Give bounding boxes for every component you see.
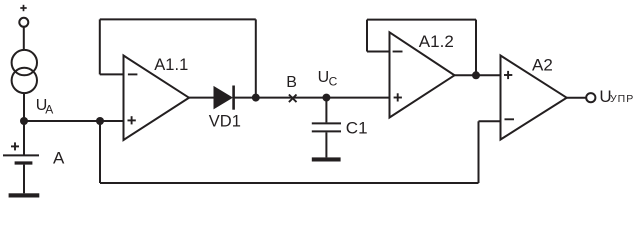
- ground (capacitor): [312, 157, 341, 161]
- wire UC to capacitor: [325, 98, 327, 123]
- node label UA: [36, 97, 53, 117]
- op-amp A1.1: [124, 56, 190, 141]
- wire A2 output: [567, 97, 587, 99]
- wire capacitor to ground: [325, 132, 327, 157]
- minus sign of A2 inverting input: [505, 118, 515, 120]
- wire battery to ground: [23, 165, 25, 194]
- node UA rail wire: [24, 120, 124, 122]
- minus sign of A1.2 inverting input: [393, 51, 403, 53]
- wire A1.2 inverting input: [367, 51, 390, 53]
- battery A negative plate: [15, 161, 33, 164]
- output label UUPR: [599, 87, 634, 106]
- wire terminal to current source: [23, 27, 25, 50]
- svg-text:B: B: [286, 74, 297, 91]
- plus polarity mark of battery: [11, 142, 19, 150]
- wire A1.2 feedback top run: [367, 19, 476, 21]
- op-amp A2: [501, 56, 567, 140]
- wire A1.1 feedback left riser: [99, 19, 101, 74]
- wire feedback riser right (to bottom run): [478, 121, 480, 183]
- svg-text:A: A: [45, 103, 53, 117]
- svg-text:VD1: VD1: [209, 113, 241, 131]
- junction A1.2 output / feedback: [472, 71, 480, 79]
- node label UC: [318, 69, 338, 89]
- svg-text:A1.1: A1.1: [154, 56, 188, 74]
- input terminal: [19, 18, 28, 27]
- svg-text:A1.2: A1.2: [419, 32, 454, 51]
- plus sign of A2 non-inverting input: [504, 71, 512, 79]
- diode VD1: [214, 86, 234, 110]
- junction node UC: [322, 94, 330, 102]
- svg-text:A: A: [53, 149, 65, 168]
- plus sign of A1.2 non-inverting input: [394, 93, 402, 101]
- svg-text:A2: A2: [532, 56, 553, 75]
- ground (battery): [9, 193, 40, 197]
- output terminal: [586, 93, 595, 102]
- svg-text:C: C: [329, 75, 338, 89]
- plus sign of A1.1 non-inverting input: [128, 116, 136, 124]
- junction at current source / battery: [20, 117, 28, 125]
- wire A1.1 inverting input: [100, 73, 124, 75]
- plus polarity mark of input terminal: [20, 5, 26, 11]
- wire A2 inverting input: [479, 120, 501, 122]
- break mark x at point B: [289, 95, 297, 103]
- wire A1.1 output to diode: [189, 97, 214, 99]
- current source (two overlapping circles): [12, 50, 37, 93]
- wire A1.1 feedback right riser: [255, 19, 257, 97]
- svg-text:УПР: УПР: [610, 93, 634, 105]
- battery A positive plate: [3, 154, 39, 156]
- junction at feedback tap to A2: [96, 117, 104, 125]
- wire A1.1 feedback top run: [100, 18, 256, 20]
- minus sign of A1.1 inverting input: [128, 73, 137, 75]
- junction diode cathode / feedback: [252, 94, 260, 102]
- wire A1.2 feedback left riser: [366, 20, 368, 52]
- svg-text:U: U: [318, 69, 330, 86]
- capacitor C1: [312, 123, 341, 131]
- op-amp A1.2: [390, 32, 455, 117]
- wire bottom feedback run: [100, 182, 479, 184]
- wire node UA to battery: [23, 121, 25, 155]
- wire A1.2 output to A2: [455, 74, 501, 76]
- wire A1.2 feedback right riser: [475, 20, 477, 76]
- svg-text:C1: C1: [346, 119, 368, 138]
- wire current source to node UA: [23, 93, 25, 121]
- wire diode to A1.2 input (through B and UC): [234, 97, 390, 99]
- wire feedback riser left (from node UA): [99, 121, 101, 183]
